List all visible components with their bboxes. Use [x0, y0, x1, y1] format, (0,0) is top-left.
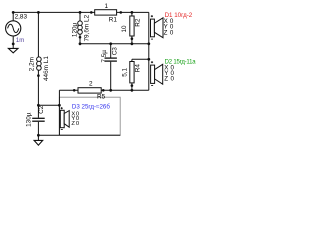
wire source stem top	[12, 12, 14, 21]
node D3 plus junction	[58, 104, 61, 107]
svg-text:446m L1: 446m L1	[43, 56, 50, 81]
svg-text:R1: R1	[109, 16, 118, 23]
svg-text:1: 1	[105, 3, 109, 10]
svg-text:D2 15гд-11а: D2 15гд-11а	[165, 59, 197, 65]
wire L1 branch	[37, 12, 39, 105]
resistor R4	[130, 62, 134, 83]
node R4 top right junction	[147, 58, 150, 61]
svg-text:D3 25гд-≈26б: D3 25гд-≈26б	[72, 104, 110, 111]
svg-text:Z: Z	[164, 29, 168, 36]
speaker D2	[151, 61, 163, 85]
svg-text:120µ: 120µ	[71, 22, 78, 37]
capacitor C3	[105, 57, 117, 59]
node L1/C2/D3 junction	[37, 104, 40, 107]
wire D3 lead	[58, 90, 60, 135]
AC source V1	[6, 21, 21, 36]
svg-text:5,1: 5,1	[121, 67, 128, 76]
inductor L1	[37, 57, 42, 70]
svg-text:2,2m: 2,2m	[29, 57, 36, 71]
svg-text:C2: C2	[38, 105, 45, 114]
node R4 bottom pin	[131, 84, 134, 87]
inductor L2	[78, 21, 83, 34]
svg-text:Z: Z	[71, 121, 75, 127]
wire R4 top link	[132, 58, 149, 60]
svg-text:10: 10	[121, 25, 128, 33]
wire source stem bottom	[12, 36, 14, 49]
wire C3 branch top	[110, 44, 112, 58]
selection frame around D3 group	[59, 97, 120, 135]
node D1 minus junction	[147, 42, 150, 45]
wire speaker column	[148, 12, 150, 90]
resistor R1	[95, 10, 117, 15]
node L2 bottom pin	[79, 36, 82, 39]
node L2 bottom junction	[79, 42, 82, 45]
capacitor C2	[32, 117, 45, 119]
svg-text:0: 0	[170, 29, 174, 36]
svg-text:130µ: 130µ	[26, 112, 33, 127]
node L1 bottom pin	[37, 74, 40, 77]
node C3 top junction	[109, 42, 112, 45]
wire mid link	[38, 104, 59, 106]
svg-text:2: 2	[89, 81, 93, 88]
wire bottom rail	[38, 134, 120, 136]
node top rail source	[12, 11, 15, 14]
svg-text:79,6m L2: 79,6m L2	[84, 14, 91, 41]
speaker D3	[60, 107, 69, 130]
svg-text:R4: R4	[135, 64, 142, 73]
node R1 left pin	[90, 11, 93, 14]
node R2 top junction	[131, 11, 134, 14]
resistor R5	[78, 88, 101, 93]
svg-text:Z: Z	[164, 76, 168, 83]
node R2 bottom junction	[131, 42, 134, 45]
svg-text:D1 10гд-2: D1 10гд-2	[165, 12, 193, 19]
node C3 bottom junction	[109, 89, 112, 92]
node R5 left pin	[73, 89, 76, 92]
svg-text:R5: R5	[97, 93, 106, 100]
ground under source	[8, 48, 18, 53]
node C2 bottom junction	[37, 134, 40, 137]
node R4 bottom junction	[131, 89, 134, 92]
wire R4 branch	[131, 59, 133, 90]
svg-text:R2: R2	[135, 18, 142, 27]
svg-text:C3: C3	[111, 47, 118, 56]
node R1 right pin	[120, 11, 123, 14]
node R2 bottom pin	[131, 37, 134, 40]
svg-text:7,5µ: 7,5µ	[101, 50, 108, 63]
node top rail L1 tap	[37, 11, 40, 14]
ground bottom	[37, 135, 39, 140]
node R5 right pin	[102, 89, 105, 92]
wire L2 branch	[79, 12, 81, 43]
resistor R2	[130, 16, 134, 36]
speaker D1	[151, 15, 164, 39]
svg-text:2,83: 2,83	[15, 13, 28, 20]
wire mid rail	[80, 43, 149, 45]
svg-text:0: 0	[76, 121, 79, 127]
svg-text:0: 0	[171, 76, 175, 83]
svg-text:1m: 1m	[16, 38, 24, 44]
wire R2 branch	[131, 12, 133, 43]
wire R5 rail	[59, 89, 148, 91]
wire top rail	[13, 11, 149, 13]
node top rail L2 tap	[79, 11, 82, 14]
wire C2 branch	[37, 105, 39, 117]
node source bottom pin	[12, 43, 15, 46]
